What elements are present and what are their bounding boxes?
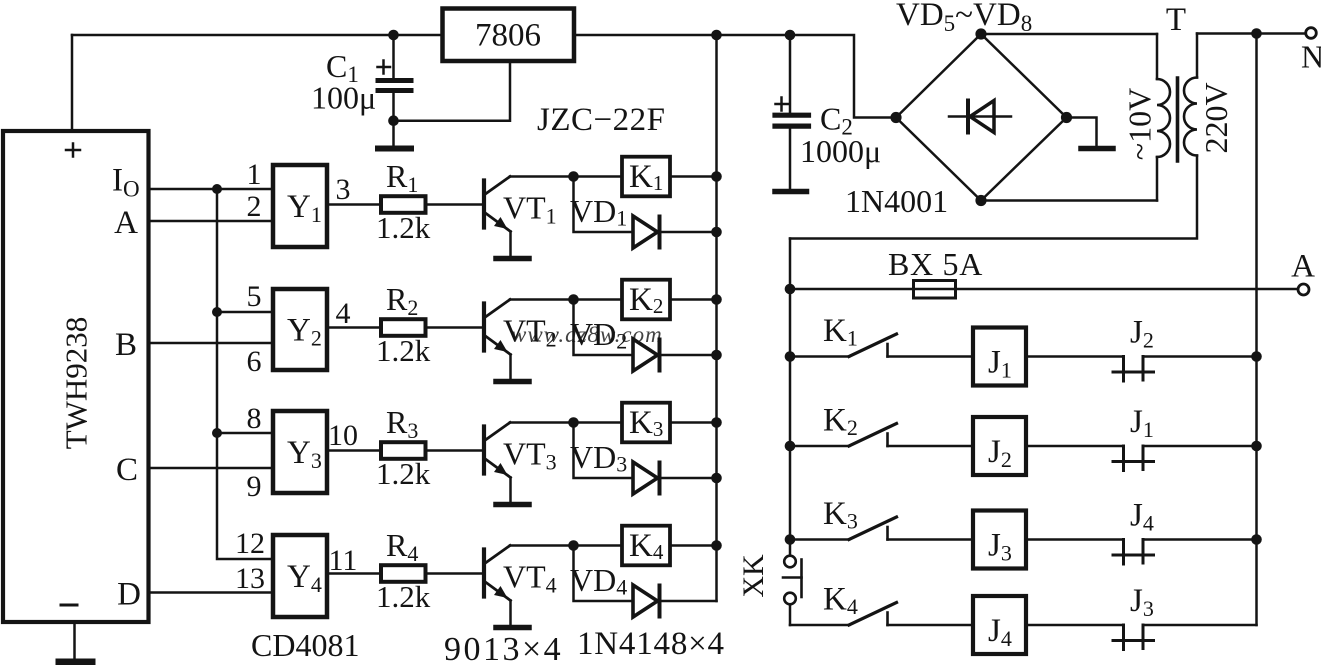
node junction bus at K1: [711, 171, 722, 182]
node junction right bus row K2: [1251, 441, 1262, 452]
label D pin: [117, 577, 141, 613]
svg-text:~10V: ~10V: [1122, 88, 1158, 160]
node bridge left corner: [890, 112, 901, 123]
relay coil J2: [973, 417, 1026, 475]
label VD2: [570, 316, 627, 354]
svg-text:Y1: Y1: [287, 189, 322, 227]
svg-text:6: 6: [247, 345, 262, 378]
svg-text:D: D: [117, 577, 141, 613]
ground at VT1 emitter: [496, 256, 529, 262]
label JZC-22F relay type: [537, 102, 665, 138]
label R4: [386, 527, 418, 566]
transformer core: [1176, 78, 1180, 161]
svg-text:Y2: Y2: [287, 313, 322, 351]
node junction C1 bottom / 7806 ground: [388, 115, 399, 126]
svg-text:J3: J3: [1130, 583, 1154, 621]
svg-text:1.2k: 1.2k: [376, 579, 431, 614]
wire A pin to gate Y1 input 2: [149, 220, 274, 223]
wire primary top to N terminal: [1197, 32, 1304, 35]
wire bus stub to Y2 input 5: [217, 311, 273, 314]
relay coil J1: [973, 328, 1026, 386]
wire 7806 output to right rail and down to bridge left corner: [574, 35, 893, 118]
svg-text:10: 10: [328, 419, 358, 452]
svg-text:TWH9238: TWH9238: [59, 317, 94, 450]
resistor R1 1.2k: [381, 196, 426, 213]
label K4 switch: [823, 582, 858, 620]
svg-text:9013×4: 9013×4: [444, 631, 563, 665]
capacitor C2 1000u electrolytic: [775, 35, 809, 189]
label N: [1301, 39, 1321, 75]
wire mains bus left vertical: [789, 239, 792, 556]
wire Io pin to gate Y1 input 1: [149, 188, 274, 191]
svg-text:220V: 220V: [1198, 82, 1234, 153]
switch K3 contact: [790, 517, 973, 540]
label ~10V rotated: [1122, 88, 1158, 160]
ground at VT3 emitter: [496, 502, 529, 508]
svg-text:XK: XK: [737, 554, 770, 598]
svg-text:J1: J1: [988, 345, 1012, 383]
resistor R3 1.2k: [381, 442, 426, 459]
svg-text:K3: K3: [823, 496, 858, 534]
wire R1 to VT1 base: [426, 203, 483, 206]
label R1: [386, 158, 418, 197]
node bridge top corner: [975, 28, 986, 39]
wire J3 coil to contact J4: [1026, 538, 1124, 541]
svg-text:Y3: Y3: [287, 435, 322, 473]
label 100u value: [311, 80, 376, 116]
node junction collector VT4: [568, 540, 579, 551]
wire collector node down to diode VD2: [574, 300, 634, 356]
node junction bus at pin8: [212, 428, 222, 438]
wire B pin to gate Y2 input 6: [149, 342, 274, 345]
node junction bus at K2: [711, 294, 722, 305]
label 1N4148x4: [577, 626, 725, 662]
socket XK lower contact circle: [784, 593, 796, 605]
terminal A circle: [1298, 284, 1309, 295]
svg-text:13: 13: [235, 562, 265, 595]
label 1.2k value R2: [376, 333, 431, 368]
node junction left bus row K2: [785, 441, 796, 452]
gate Y2 CD4081 AND: [273, 289, 327, 370]
socket XK upper contact circle: [784, 556, 796, 568]
wire XK lower circle to K4 row: [789, 605, 792, 626]
wire K3 coil to supply bus: [670, 421, 717, 424]
pin number 6 label: [247, 345, 262, 378]
svg-text:J2: J2: [1130, 315, 1154, 353]
label VD3: [570, 439, 627, 477]
node junction collector VT2: [568, 294, 579, 305]
IC TWH9238 body: [3, 131, 149, 622]
pin number 10 label: [328, 419, 358, 452]
svg-text:Y4: Y4: [287, 559, 322, 597]
wire gate Y2 output to R2: [327, 326, 381, 329]
label T: [1166, 2, 1186, 38]
gate Y3 CD4081 AND: [273, 411, 327, 493]
ground at VT2 emitter: [496, 379, 529, 385]
svg-text:K1: K1: [629, 159, 663, 195]
node junction bus at Io: [212, 184, 222, 194]
svg-text:R4: R4: [386, 527, 418, 566]
svg-text:A: A: [1291, 249, 1315, 285]
label 9013x4: [444, 631, 563, 665]
node bridge right corner: [1061, 112, 1072, 123]
ground below C2: [775, 189, 807, 195]
relay contact J2: [1113, 357, 1257, 382]
svg-text:R3: R3: [386, 404, 418, 443]
label R2: [386, 281, 418, 320]
svg-text:A: A: [114, 205, 138, 241]
svg-text:9: 9: [247, 470, 262, 503]
wire gate Y3 output to R3: [327, 449, 381, 452]
svg-text:1.2k: 1.2k: [376, 456, 431, 491]
label B pin: [115, 327, 137, 363]
ground below C1: [378, 146, 411, 152]
wire bus stub to Y3 input 8: [217, 432, 273, 435]
gate Y1 CD4081 AND: [273, 165, 327, 247]
label VT3: [503, 436, 557, 475]
svg-text:J1: J1: [1130, 404, 1154, 442]
node junction bus at K4: [711, 540, 722, 551]
svg-text:1N4148×4: 1N4148×4: [577, 626, 725, 662]
label J3 contact: [1130, 583, 1154, 621]
wire gate Y1 output to R1: [327, 203, 381, 206]
pin number 1 label: [247, 158, 262, 191]
pin number 9 label: [247, 470, 262, 503]
svg-text:K1: K1: [823, 313, 858, 351]
switch K4 contact: [790, 603, 973, 626]
diode VD4 1N4148: [633, 585, 717, 617]
wire C pin to gate Y3 input 9: [149, 467, 274, 470]
node junction bus at pin5: [212, 307, 222, 317]
wire left vertical from top rail down to TWH9238 plus pin: [71, 35, 74, 131]
svg-text:R2: R2: [386, 281, 418, 320]
svg-text:K2: K2: [629, 282, 663, 318]
relay coil K3: [622, 403, 670, 443]
label 1.2k value R3: [376, 456, 431, 491]
pin number 2 label: [247, 190, 262, 223]
pin number 13 label: [235, 562, 265, 595]
svg-text:12: 12: [235, 527, 265, 560]
wire gate Y4 output to R4: [327, 572, 381, 575]
diode VD1 1N4148: [633, 216, 717, 248]
svg-text:B: B: [115, 327, 137, 363]
wire bridge right corner to ground: [1067, 118, 1097, 147]
wire VT2 collector to K2 coil: [510, 298, 622, 301]
socket XK plug bar: [783, 560, 802, 598]
svg-text:VD5~VD8: VD5~VD8: [896, 0, 1032, 36]
wire K4 coil to supply bus: [670, 544, 717, 547]
pin number 3 label: [336, 173, 351, 206]
switch K1 contact: [790, 334, 973, 357]
relay coil K4: [622, 526, 670, 566]
wire bridge bottom corner to transformer secondary bottom: [981, 199, 1157, 202]
svg-text:J4: J4: [988, 613, 1012, 651]
label VD1: [570, 193, 627, 231]
pin number 12 label: [235, 527, 265, 560]
pin number 8 label: [247, 402, 262, 435]
node junction fuse row left: [785, 284, 796, 295]
label VD5~VD8: [896, 0, 1032, 36]
transistor VT3 9013 NPN: [484, 423, 511, 502]
svg-text:R1: R1: [386, 158, 418, 197]
svg-text:C: C: [116, 452, 138, 488]
node junction bus at VD1: [711, 227, 722, 238]
label 1.2k value R4: [376, 579, 431, 614]
relay coil J4: [973, 596, 1026, 654]
node junction bus at VD3: [711, 473, 722, 484]
wire collector node down to diode VD4: [574, 546, 634, 602]
transistor VT4 9013 NPN: [484, 546, 511, 625]
svg-text:5: 5: [247, 280, 262, 313]
wire collector node down to diode VD1: [574, 177, 634, 233]
node junction left bus row K1: [785, 351, 796, 362]
wire collector supply bus vertical: [715, 35, 718, 601]
fuse BX 5A: [914, 281, 956, 299]
wire 7806 ground pin down and left to C1 bottom node: [394, 61, 511, 121]
watermark: [511, 322, 663, 347]
svg-text:K2: K2: [823, 403, 858, 441]
label K3 switch: [823, 496, 858, 534]
diode VD3 1N4148: [633, 462, 717, 494]
wire D pin to gate Y4 input 13: [149, 591, 274, 594]
label R3: [386, 404, 418, 443]
svg-text:7806: 7806: [475, 18, 541, 54]
svg-text:1N4001: 1N4001: [845, 183, 948, 219]
resistor R4 1.2k: [381, 565, 426, 582]
label VD4: [570, 562, 627, 600]
label A terminal: [1291, 249, 1315, 285]
svg-text:100μ: 100μ: [311, 80, 376, 116]
resistor R2 1.2k: [381, 319, 426, 336]
svg-text:4: 4: [336, 297, 351, 330]
transformer T primary winding 220V: [790, 34, 1197, 239]
svg-text:J3: J3: [988, 528, 1012, 566]
wire Io distribution bus vertical: [217, 189, 273, 559]
gate Y4 CD4081 AND: [273, 535, 327, 617]
label VT2: [503, 313, 557, 352]
diode VD2 1N4148: [633, 339, 717, 371]
svg-text:VD4: VD4: [570, 562, 627, 600]
label J2 contact: [1130, 315, 1154, 353]
wire K2 coil to supply bus: [670, 298, 717, 301]
wire J1 coil to contact J2: [1026, 355, 1124, 358]
node junction top rail at C1: [388, 30, 399, 41]
node junction right bus row K1: [1251, 351, 1262, 362]
wire K1 coil to supply bus: [670, 175, 717, 178]
label K2 switch: [823, 403, 858, 441]
label VT4: [503, 559, 557, 598]
svg-text:VD1: VD1: [570, 193, 627, 231]
ground below TWH9238: [59, 622, 92, 662]
svg-text:1.2k: 1.2k: [376, 333, 431, 368]
pin number 4 label: [336, 297, 351, 330]
label J4 contact: [1130, 498, 1154, 536]
wire top supply rail from TWH9238 to 7806 input: [72, 34, 442, 37]
label C2: [820, 101, 853, 140]
node bridge bottom corner: [975, 195, 986, 206]
wire J4 coil to contact J3: [1026, 624, 1124, 627]
wire right live bus vertical: [1255, 34, 1258, 626]
relay contact J3: [1113, 625, 1257, 650]
pin number 5 label: [247, 280, 262, 313]
label J1 contact: [1130, 404, 1154, 442]
label 1000u value: [800, 133, 881, 169]
wire R4 to VT4 base: [426, 572, 483, 575]
svg-text:2: 2: [247, 190, 262, 223]
label CD4081: [251, 627, 359, 663]
transformer T secondary winding ~10V: [1157, 34, 1170, 201]
label 220V rotated: [1198, 82, 1234, 153]
svg-text:VT4: VT4: [503, 559, 557, 598]
svg-text:N: N: [1301, 39, 1321, 75]
node junction bus at K3: [711, 417, 722, 428]
transistor VT1 9013 NPN: [484, 177, 511, 256]
svg-text:CD4081: CD4081: [251, 627, 359, 663]
relay contact J1: [1113, 446, 1257, 471]
wire VT3 collector to K3 coil: [510, 421, 622, 424]
relay coil K2: [622, 280, 670, 320]
wire R3 to VT3 base: [426, 449, 483, 452]
bridge inner diode symbol: [949, 101, 1011, 133]
relay coil J3: [973, 511, 1026, 569]
svg-text:1000μ: 1000μ: [800, 133, 881, 169]
label VT1: [503, 190, 557, 229]
transistor VT2 9013 NPN: [484, 300, 511, 379]
bridge rectifier VD5-VD8 diamond: [896, 34, 1067, 201]
svg-text:8: 8: [247, 402, 262, 435]
wire VT1 collector to K1 coil: [510, 175, 622, 178]
node junction bus at VD2: [711, 350, 722, 361]
terminal N circle: [1306, 28, 1317, 39]
switch K2 contact: [790, 424, 973, 447]
ground at VT4 emitter: [496, 625, 529, 631]
ground at bridge right: [1081, 146, 1113, 152]
label C1: [326, 48, 359, 87]
label XK rotated: [737, 554, 770, 598]
wire VT4 collector to K4 coil: [510, 544, 622, 547]
node junction right bus row K3: [1251, 534, 1262, 545]
svg-text:J4: J4: [1130, 498, 1154, 536]
relay contact J4: [1113, 540, 1257, 565]
relay coil K1: [622, 157, 670, 197]
wire bridge top corner to transformer secondary top: [981, 33, 1157, 36]
node junction N line and right bus: [1251, 28, 1262, 39]
svg-text:J2: J2: [988, 434, 1012, 472]
label Io pin: [112, 163, 140, 202]
svg-text:1: 1: [247, 158, 262, 191]
node junction collector VT1: [568, 171, 579, 182]
label C pin: [116, 452, 138, 488]
svg-text:K4: K4: [629, 528, 664, 564]
capacitor C1 100u electrolytic: [378, 35, 412, 146]
svg-text:11: 11: [329, 544, 358, 577]
wire fuse row: [790, 288, 1297, 291]
svg-text:K3: K3: [629, 405, 663, 441]
wire J2 coil to contact J1: [1026, 445, 1124, 448]
svg-text:www.dz8w.com: www.dz8w.com: [511, 322, 663, 347]
svg-text:VT3: VT3: [503, 436, 557, 475]
regulator U1 7806: [443, 9, 575, 62]
svg-text:1.2k: 1.2k: [376, 210, 431, 245]
svg-text:VT1: VT1: [503, 190, 557, 229]
pin number 11 label: [329, 544, 358, 577]
svg-text:VD3: VD3: [570, 439, 627, 477]
svg-text:IO: IO: [112, 163, 140, 202]
label 1.2k value R1: [376, 210, 431, 245]
wire R2 to VT2 base: [426, 326, 483, 329]
label K1 switch: [823, 313, 858, 351]
svg-text:JZC−22F: JZC−22F: [537, 102, 665, 138]
node junction rail at C2: [785, 30, 796, 41]
node junction of 6V rail and collector bus: [711, 30, 722, 41]
svg-text:T: T: [1166, 2, 1186, 38]
svg-text:BX 5A: BX 5A: [888, 246, 983, 282]
label 1N4001: [845, 183, 948, 219]
node junction collector VT3: [568, 417, 579, 428]
label BX 5A: [888, 246, 983, 282]
node junction K3 row left: [785, 534, 796, 545]
wire collector node down to diode VD3: [574, 423, 634, 479]
label A pin: [114, 205, 138, 241]
svg-text:3: 3: [336, 173, 351, 206]
svg-text:K4: K4: [823, 582, 858, 620]
